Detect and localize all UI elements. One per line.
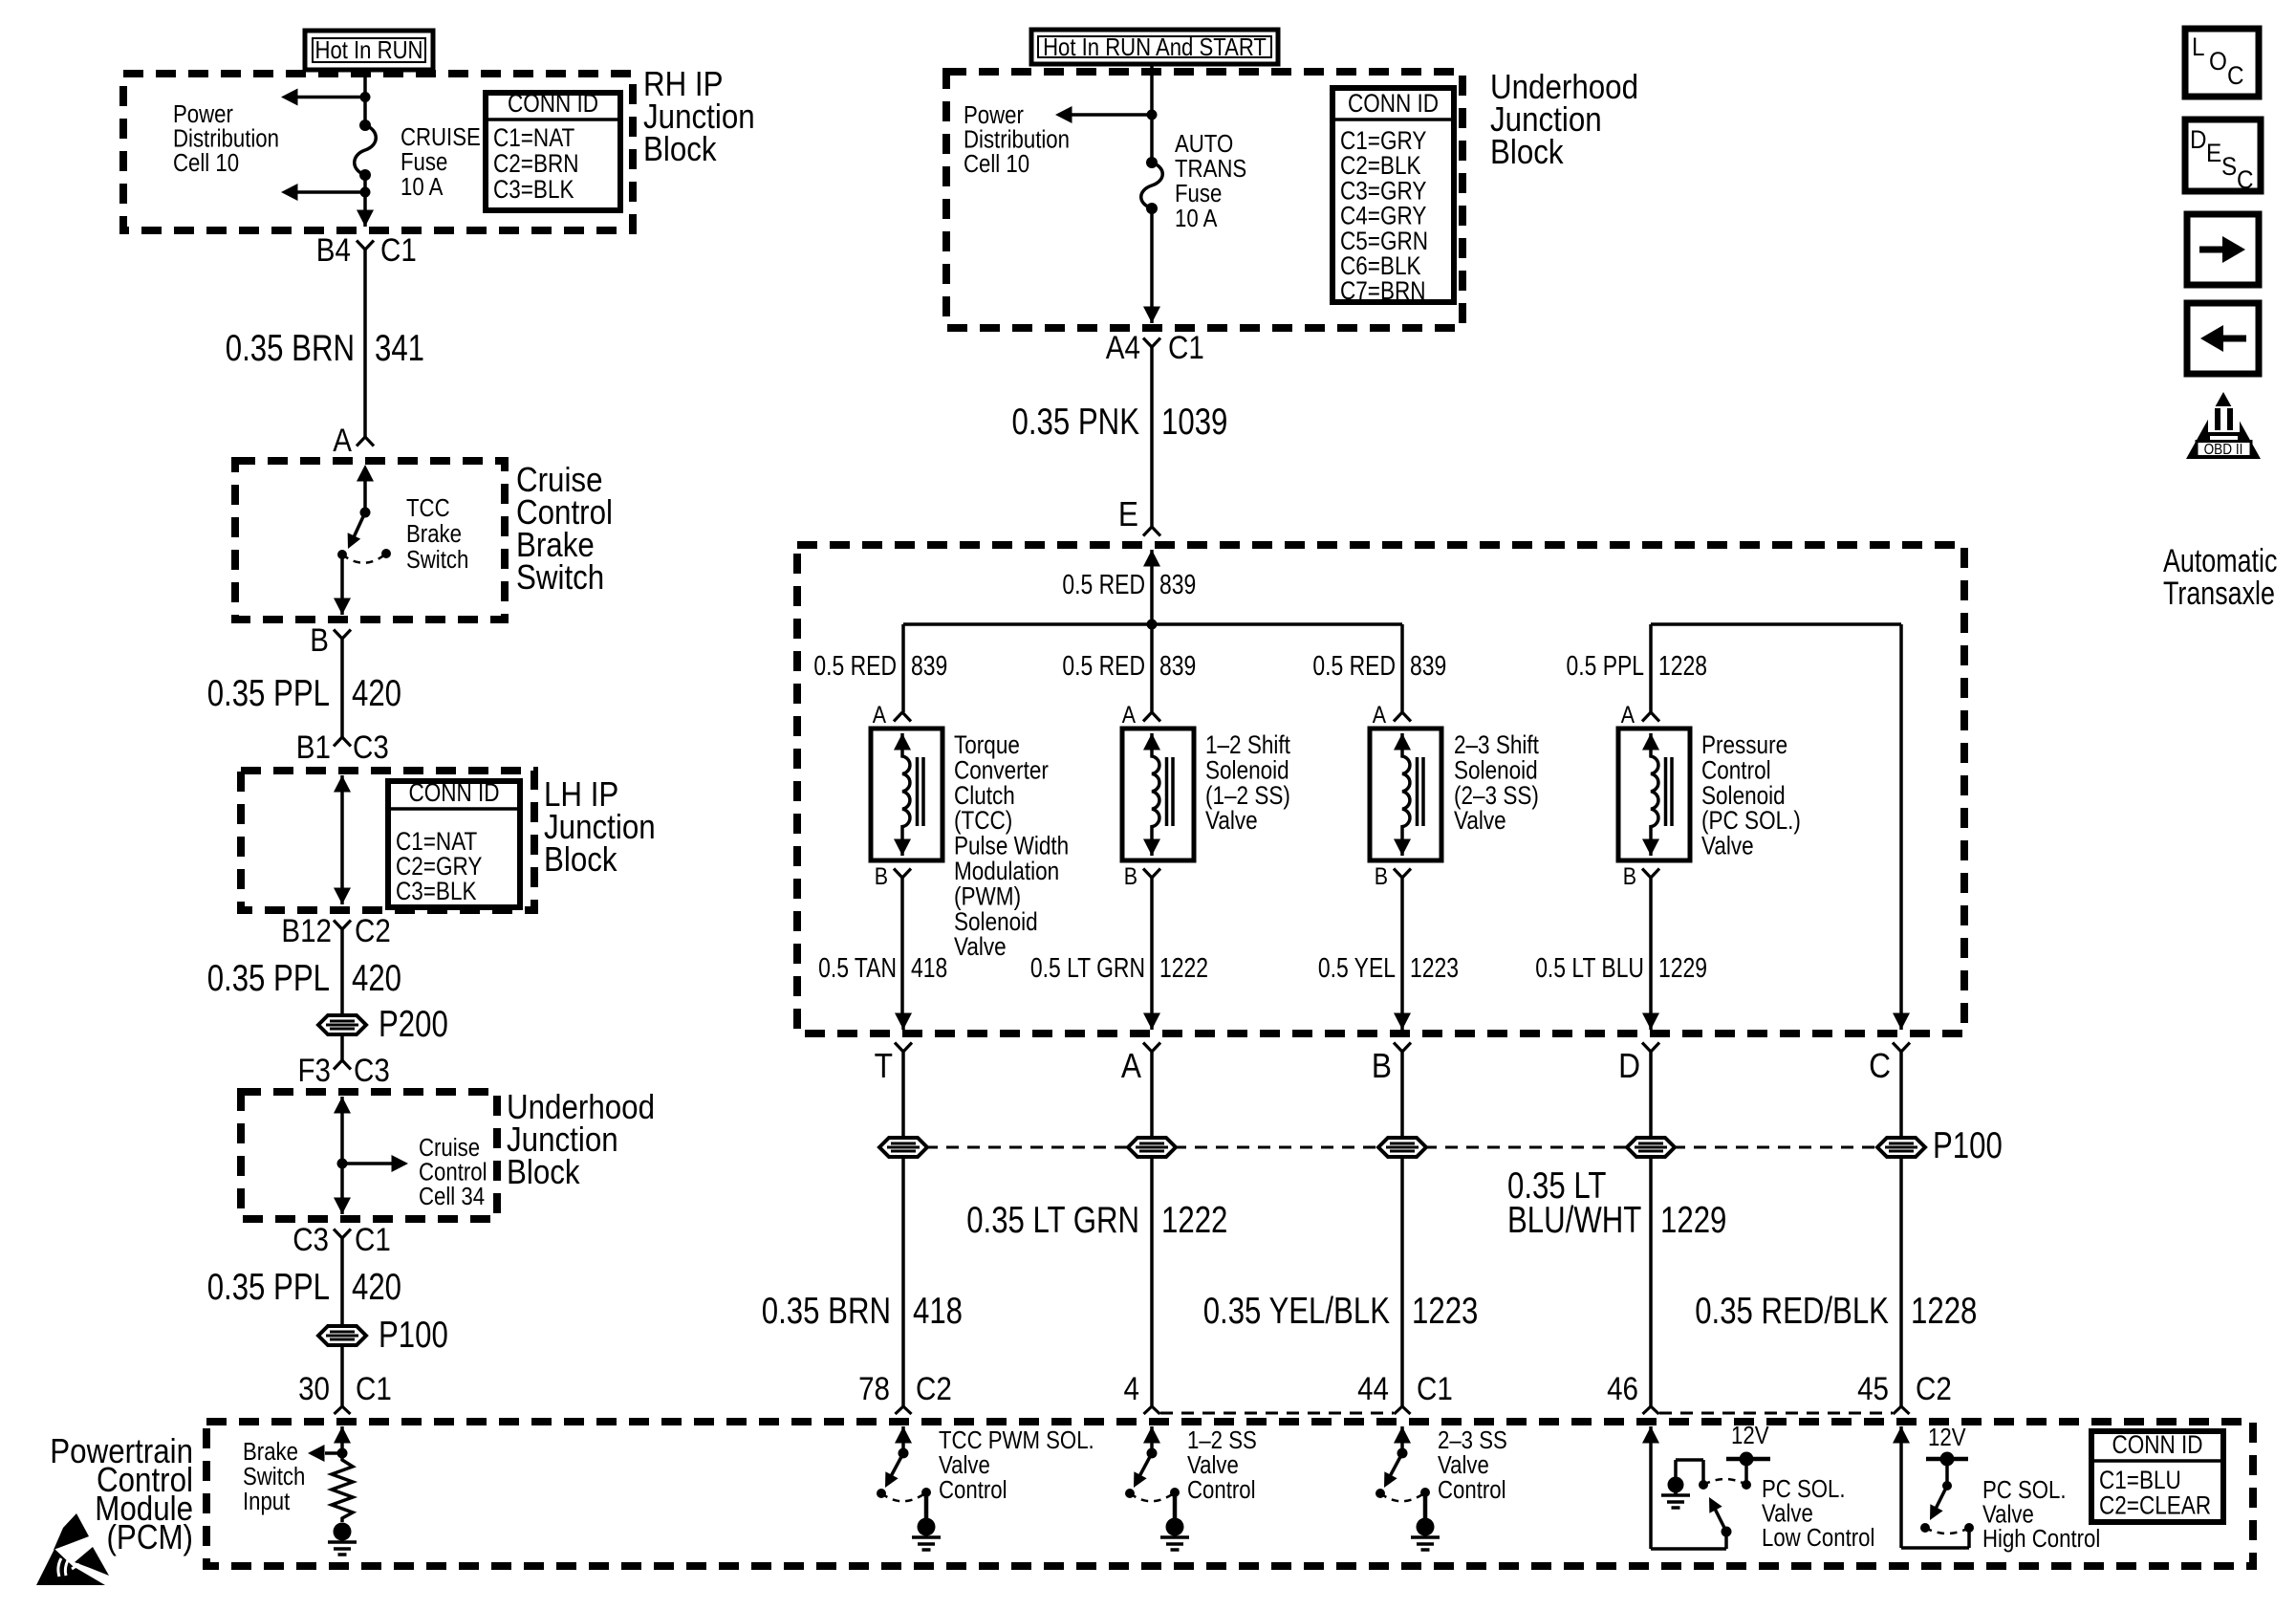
svg-text:P100: P100 [379, 1315, 448, 1356]
svg-text:Valve: Valve [1187, 1452, 1239, 1479]
svg-text:Hot In RUN: Hot In RUN [315, 35, 423, 64]
svg-text:0.5 TAN: 0.5 TAN [818, 953, 897, 984]
svg-text:C7=BRN: C7=BRN [1340, 276, 1426, 305]
svg-text:O: O [2209, 47, 2227, 76]
svg-text:10 A: 10 A [401, 174, 443, 201]
svg-text:30: 30 [298, 1371, 330, 1407]
svg-text:(PCM): (PCM) [107, 1517, 194, 1556]
svg-text:F3: F3 [298, 1053, 332, 1089]
svg-text:0.35 YEL/BLK: 0.35 YEL/BLK [1203, 1291, 1391, 1332]
svg-text:0.35 PPL: 0.35 PPL [207, 673, 330, 714]
svg-text:4: 4 [1124, 1371, 1140, 1407]
svg-text:Switch: Switch [516, 557, 604, 597]
svg-text:0.35 PNK: 0.35 PNK [1012, 402, 1140, 443]
svg-text:A: A [1122, 703, 1137, 729]
svg-text:PC SOL.: PC SOL. [1982, 1477, 2067, 1504]
svg-text:B: B [1372, 1046, 1392, 1085]
svg-text:PC SOL.: PC SOL. [1762, 1476, 1846, 1503]
svg-text:1228: 1228 [1911, 1291, 1977, 1332]
svg-text:TCC: TCC [406, 495, 450, 522]
svg-text:Control: Control [939, 1477, 1007, 1504]
svg-text:0.5 PPL: 0.5 PPL [1567, 651, 1645, 682]
svg-text:C3: C3 [353, 729, 389, 766]
svg-text:1–2 SS: 1–2 SS [1187, 1427, 1257, 1454]
svg-text:C1=NAT: C1=NAT [493, 123, 574, 152]
svg-text:46: 46 [1607, 1371, 1638, 1407]
svg-text:CONN ID: CONN ID [2112, 1430, 2202, 1459]
svg-text:C2: C2 [355, 913, 391, 949]
svg-text:Cell 34: Cell 34 [419, 1184, 485, 1210]
svg-text:Distribution: Distribution [173, 126, 279, 153]
svg-text:High Control: High Control [1982, 1526, 2100, 1553]
svg-text:Brake: Brake [406, 521, 462, 548]
svg-text:B: B [1623, 864, 1636, 890]
svg-text:0.35 RED/BLK: 0.35 RED/BLK [1695, 1291, 1889, 1332]
svg-text:Hot In RUN And START: Hot In RUN And START [1043, 33, 1267, 61]
svg-text:Power: Power [173, 101, 233, 128]
svg-text:Fuse: Fuse [1175, 181, 1222, 207]
svg-text:Control: Control [1187, 1477, 1256, 1504]
svg-text:A4: A4 [1106, 330, 1140, 366]
svg-text:C2=CLEAR: C2=CLEAR [2099, 1491, 2211, 1520]
svg-text:T: T [875, 1046, 893, 1085]
svg-text:A: A [1373, 703, 1387, 729]
svg-text:341: 341 [375, 328, 424, 369]
svg-text:Block: Block [643, 129, 717, 168]
svg-text:Valve: Valve [954, 932, 1007, 961]
svg-text:AUTO: AUTO [1175, 131, 1233, 158]
svg-text:0.35 BRN: 0.35 BRN [762, 1291, 891, 1332]
svg-text:1222: 1222 [1161, 1200, 1227, 1241]
svg-text:P100: P100 [1933, 1125, 2003, 1166]
svg-text:C1: C1 [356, 1371, 392, 1407]
svg-text:Block: Block [1490, 132, 1564, 171]
svg-text:Valve: Valve [1982, 1502, 2034, 1529]
svg-text:C: C [2237, 165, 2254, 194]
svg-text:0.5 RED: 0.5 RED [1312, 651, 1396, 682]
svg-text:A: A [333, 423, 352, 459]
svg-text:Input: Input [243, 1489, 290, 1515]
svg-text:45: 45 [1857, 1371, 1889, 1407]
svg-text:C1: C1 [355, 1222, 391, 1258]
svg-text:1228: 1228 [1658, 651, 1707, 682]
svg-text:Power: Power [964, 102, 1024, 129]
svg-text:Block: Block [507, 1152, 580, 1191]
svg-text:Control: Control [1438, 1477, 1506, 1504]
svg-text:78: 78 [858, 1371, 890, 1407]
svg-text:0.5 LT GRN: 0.5 LT GRN [1030, 953, 1145, 984]
svg-text:Block: Block [544, 839, 617, 879]
svg-text:A: A [1121, 1046, 1141, 1085]
svg-text:B: B [310, 622, 329, 659]
svg-text:L: L [2192, 33, 2205, 61]
svg-text:1229: 1229 [1658, 953, 1707, 984]
svg-text:Cruise: Cruise [419, 1135, 480, 1162]
svg-text:839: 839 [1410, 651, 1446, 682]
svg-text:10 A: 10 A [1175, 206, 1217, 232]
svg-text:C3=BLK: C3=BLK [493, 175, 574, 204]
svg-text:C1: C1 [380, 232, 417, 269]
svg-text:0.5 RED: 0.5 RED [1062, 651, 1145, 682]
svg-text:Valve: Valve [1438, 1452, 1489, 1479]
svg-text:B: B [1124, 864, 1137, 890]
svg-text:0.35 PPL: 0.35 PPL [207, 1267, 330, 1308]
svg-text:TRANS: TRANS [1175, 156, 1246, 183]
svg-text:E: E [2206, 139, 2221, 167]
svg-text:Transaxle: Transaxle [2163, 576, 2275, 612]
svg-text:Automatic: Automatic [2163, 543, 2277, 579]
svg-text:Control: Control [419, 1160, 487, 1186]
svg-text:C1=BLU: C1=BLU [2099, 1466, 2181, 1494]
svg-text:B12: B12 [281, 913, 332, 949]
svg-text:1222: 1222 [1159, 953, 1208, 984]
svg-text:0.35 PPL: 0.35 PPL [207, 958, 330, 999]
svg-text:0.35 LT GRN: 0.35 LT GRN [966, 1200, 1139, 1241]
svg-text:B1: B1 [296, 729, 331, 766]
svg-text:Cell 10: Cell 10 [964, 151, 1029, 178]
svg-text:D: D [2190, 125, 2207, 154]
svg-text:420: 420 [352, 673, 401, 714]
svg-text:CONN ID: CONN ID [408, 778, 499, 807]
svg-text:C2: C2 [1916, 1371, 1952, 1407]
svg-text:0.5 RED: 0.5 RED [813, 651, 897, 682]
svg-text:B4: B4 [316, 232, 351, 269]
svg-text:1039: 1039 [1161, 402, 1227, 443]
svg-text:C2=BRN: C2=BRN [493, 149, 579, 178]
svg-text:44: 44 [1357, 1371, 1389, 1407]
svg-text:E: E [1118, 494, 1138, 533]
svg-text:418: 418 [913, 1291, 963, 1332]
svg-text:CONN ID: CONN ID [508, 89, 598, 118]
svg-text:Valve: Valve [1454, 806, 1506, 835]
svg-text:P200: P200 [379, 1004, 448, 1045]
svg-text:B: B [1375, 864, 1388, 890]
svg-text:420: 420 [352, 1267, 401, 1308]
svg-text:Low Control: Low Control [1762, 1525, 1874, 1552]
svg-text:S: S [2221, 152, 2237, 181]
svg-text:Valve: Valve [1762, 1501, 1813, 1528]
svg-text:418: 418 [911, 953, 947, 984]
svg-text:C: C [1869, 1046, 1891, 1085]
svg-text:C3: C3 [292, 1222, 329, 1258]
svg-text:Valve: Valve [1205, 806, 1258, 835]
svg-text:C2: C2 [916, 1371, 952, 1407]
svg-text:CONN ID: CONN ID [1348, 89, 1439, 118]
svg-text:Cell 10: Cell 10 [173, 150, 239, 177]
svg-text:B: B [875, 864, 888, 890]
svg-text:839: 839 [1159, 651, 1196, 682]
svg-text:TCC PWM SOL.: TCC PWM SOL. [939, 1427, 1094, 1454]
svg-text:0.5 RED: 0.5 RED [1062, 570, 1145, 600]
svg-text:0.35 BRN: 0.35 BRN [226, 328, 355, 369]
svg-text:1229: 1229 [1660, 1200, 1726, 1241]
svg-text:Valve: Valve [1701, 832, 1754, 860]
svg-text:12V: 12V [1928, 1425, 1966, 1451]
svg-text:Switch: Switch [243, 1464, 305, 1490]
svg-text:Distribution: Distribution [964, 127, 1070, 154]
svg-text:C: C [2227, 61, 2244, 90]
svg-text:Fuse: Fuse [401, 149, 447, 176]
svg-text:2–3 SS: 2–3 SS [1438, 1427, 1507, 1454]
svg-text:CRUISE: CRUISE [401, 124, 481, 151]
svg-text:BLU/WHT: BLU/WHT [1507, 1200, 1641, 1241]
svg-text:C1: C1 [1168, 330, 1204, 366]
svg-text:420: 420 [352, 958, 401, 999]
svg-text:0.5 LT BLU: 0.5 LT BLU [1535, 953, 1644, 984]
svg-text:1223: 1223 [1410, 953, 1459, 984]
svg-text:839: 839 [1159, 570, 1196, 600]
svg-text:C3: C3 [354, 1053, 390, 1089]
svg-text:1223: 1223 [1412, 1291, 1478, 1332]
svg-text:12V: 12V [1731, 1423, 1769, 1449]
svg-text:0.5 YEL: 0.5 YEL [1318, 953, 1396, 984]
svg-text:Valve: Valve [939, 1452, 990, 1479]
svg-text:Switch: Switch [406, 547, 468, 574]
svg-text:C1: C1 [1417, 1371, 1453, 1407]
svg-text:OBD II: OBD II [2204, 442, 2243, 458]
svg-text:A: A [873, 703, 887, 729]
svg-text:839: 839 [911, 651, 947, 682]
svg-text:A: A [1621, 703, 1635, 729]
svg-text:Brake: Brake [243, 1439, 298, 1466]
svg-text:C3=BLK: C3=BLK [396, 877, 477, 905]
svg-text:D: D [1618, 1046, 1640, 1085]
